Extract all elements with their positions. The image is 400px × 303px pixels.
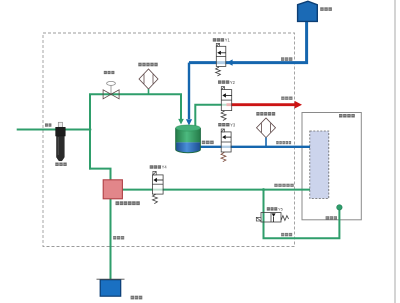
label 排水口: [113, 236, 124, 240]
pressure regulator 调压阀: [103, 81, 119, 98]
arrowhead blue into storage tank: [186, 119, 192, 125]
arrowhead blue at valve Y1: [227, 59, 233, 65]
window edge line: [394, 0, 396, 303]
label 电磁阀Y2: [218, 80, 236, 85]
wire: regulator row green: [89, 94, 181, 120]
storage tank 储水罐: [176, 125, 201, 153]
label 调压阀: [104, 71, 115, 74]
wire: storage tank to test piece blue: [200, 146, 310, 148]
label 排气测试口: [274, 184, 293, 187]
label 进水口: [281, 57, 292, 61]
label 气压传感器: [138, 63, 157, 67]
label 水压传感器: [256, 112, 275, 116]
label 电磁阀Y1: [213, 38, 231, 43]
junction at pump outlet branch: [262, 188, 265, 191]
label 被测试腔: [339, 114, 355, 118]
wire: green riser: [89, 94, 91, 169]
wire: pump outlet to test piece: [122, 189, 310, 191]
wire: pump drain to waste tank: [110, 199, 112, 280]
wire: tank vent to valve Y2: [195, 105, 226, 126]
label 储水罐: [202, 141, 214, 145]
wire: inlet tank drop blue: [189, 21, 307, 63]
svg-text:Y3: Y3: [230, 122, 236, 127]
arrowhead red exhaust: [295, 101, 302, 109]
pressure regulator body fill: [103, 90, 119, 99]
label 航空泵水装置: [116, 201, 140, 205]
label 气源: [45, 123, 51, 126]
air filter 过滤器: [56, 122, 66, 161]
arrowhead green into storage tank: [178, 119, 184, 125]
solenoid valve Y5: [256, 213, 288, 223]
label 废水箱: [131, 296, 143, 300]
label 进水箱: [320, 7, 332, 11]
wire: main air supply green: [17, 129, 90, 131]
junction main line riser: [89, 128, 92, 131]
svg-text:Y1: Y1: [225, 38, 231, 43]
water pressure sensor 水压传感器: [257, 118, 276, 147]
label 电磁阀Y4: [150, 165, 168, 170]
water pump 航空泵水装置: [103, 180, 122, 199]
waste water tank 废水箱: [97, 279, 125, 296]
valve body fills (under lines): [152, 46, 281, 222]
label 溢水口 near valve Y5: [281, 233, 292, 236]
test piece (lavender dashed rect): [310, 131, 329, 199]
svg-text:Y5: Y5: [278, 207, 283, 212]
wire: pump feed: [89, 169, 111, 181]
wire: exhaust red: [227, 103, 297, 106]
label 排气口: [281, 97, 292, 100]
label 溢水口 at chamber: [326, 216, 337, 220]
svg-text:Y2: Y2: [230, 80, 236, 85]
solenoid valve Y3: [221, 129, 231, 162]
solenoid valve Y2: [221, 87, 232, 121]
wire: overflow loop: [264, 190, 340, 239]
label 真水测试口: [276, 141, 291, 144]
overflow port dot: [337, 205, 342, 210]
label 电磁阀Y5: [267, 207, 283, 212]
dashed system boundary box: [43, 33, 295, 247]
solenoid valve Y4: [152, 171, 163, 203]
test chamber box: [302, 113, 361, 220]
svg-text:Y4: Y4: [162, 165, 168, 170]
solenoid valve Y1: [216, 43, 226, 76]
label 过滤器: [55, 163, 66, 167]
inlet water tank 进水箱: [298, 1, 318, 21]
air pressure sensor 气压传感器: [139, 69, 158, 94]
label 电磁阀Y3: [218, 122, 236, 127]
wire: blue into storage tank: [188, 63, 190, 119]
